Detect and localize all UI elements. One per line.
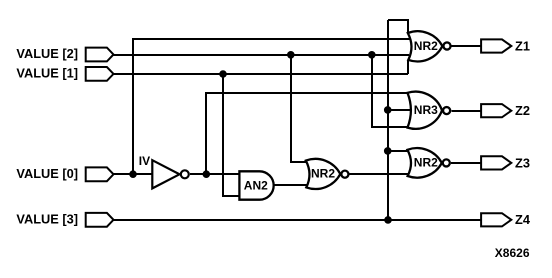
wire VALUE[3] to NR3 middle input [387,109,411,111]
wire VALUE[1] rise into NR2 top gate bottom edge [407,60,409,74]
output terminal Z2 [481,104,511,117]
wire VALUE[3] to NR2 bottom gate upper input [387,150,409,152]
svg-text:VALUE [2]: VALUE [2] [16,46,78,61]
wire Z1 output [452,45,481,47]
svg-text:Z1: Z1 [515,38,530,53]
wire VALUE[3] riser x=387.5 [387,20,389,220]
wire VALUE[0] riser x=133 up and over to NR2 top gate upper input [133,39,410,174]
svg-text:Z2: Z2 [515,103,530,118]
svg-text:NR2: NR2 [311,167,335,181]
svg-text:NR2: NR2 [414,39,438,53]
svg-text:VALUE [3]: VALUE [3] [16,211,78,226]
nor-gate NR2 top [408,31,451,61]
svg-text:Z3: Z3 [515,155,530,170]
node junction on inverter output at riser x=206.5 [203,170,211,178]
wire Z3 output [451,162,481,164]
wire net VALUE[1] horizontal [114,73,409,75]
node junction on VALUE[3] line at riser [384,216,392,224]
svg-text:NR3: NR3 [414,103,438,117]
wire VALUE[1] riser x=222.8 to AN2 lower input [223,74,239,196]
output terminal Z4 [481,213,511,226]
nor-gate NR3 [408,92,451,129]
input terminal VALUE[3] [86,213,114,227]
output terminal Z1 [481,39,511,52]
nor-gate NR2 center [306,159,349,189]
wire center NR2 output to NR2 bottom gate lower input [350,173,410,175]
and-gate AN2 [239,171,273,199]
input terminal VALUE[2] [86,48,114,62]
wire inverter output to AN2 upper input [190,173,239,175]
svg-text:NR2: NR2 [414,156,438,170]
node junction on VALUE[3] riser at NR3 middle input [384,106,392,114]
svg-text:X8626: X8626 [495,246,530,260]
node junction on VALUE[3] riser at NR2 bottom gate input [384,147,392,155]
output terminal Z3 [481,156,511,169]
svg-text:VALUE [1]: VALUE [1] [16,65,78,80]
input terminal VALUE[1] [86,67,114,81]
svg-text:VALUE [0]: VALUE [0] [16,166,78,181]
wire VALUE[2] riser x=371.6 to NR3 bottom input [372,55,408,127]
wire VALUE[3] staple over NR2 top gate into its top edge [388,20,408,33]
nor-gate NR2 bottom [407,148,449,178]
svg-text:IV: IV [139,154,150,168]
svg-text:Z4: Z4 [515,212,531,227]
wire AN2 output to center NR2 lower input [274,184,309,186]
inverter IV [152,160,189,188]
input terminal VALUE[0] [86,167,114,181]
svg-text:AN2: AN2 [244,178,268,192]
wire net VALUE[2] horizontal to NR2 top gate input [114,54,409,56]
wire Z2 output [451,110,481,112]
wire inverter output riser x=206.5 to NR3 top input [206,93,408,174]
wire VALUE[0] to inverter input [114,173,153,175]
node junction on VALUE[2] at riser x=371.6 [368,51,376,59]
node junction on VALUE[1] at riser x=222.8 [219,70,227,78]
wire VALUE[2] riser x=290.5 to center NR2 upper input [291,55,306,162]
node junction on VALUE[2] at riser x=290.5 [287,51,295,59]
node junction on VALUE[0] at riser x=133 [129,170,137,178]
wire net VALUE[3] horizontal to Z4 [114,219,482,221]
